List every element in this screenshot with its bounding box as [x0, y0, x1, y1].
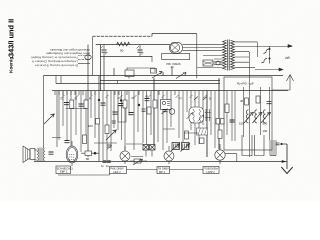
wire AVC connector [94, 142, 117, 144]
switch plate box [162, 54, 190, 60]
capacitor C17 small [106, 161, 111, 168]
switch S1 mains selector [262, 46, 271, 64]
svg-text:PHIL DKBV: PHIL DKBV [110, 167, 124, 171]
wire cathode rail [34, 161, 287, 163]
wire drop to mains section [151, 56, 153, 62]
coil L6 with trimmer [244, 110, 254, 123]
svg-text:EBF 2: EBF 2 [60, 170, 68, 174]
svg-text:uW: uW [285, 56, 290, 60]
svg-text:L/EF 2: L/EF 2 [113, 170, 121, 174]
switch S3 arrow [152, 72, 162, 79]
tube V3 [164, 146, 174, 164]
wire bus B left drop [43, 76, 45, 149]
wire label link [127, 169, 204, 171]
trimmer arrow left [44, 114, 54, 124]
capacitor C14 [145, 99, 150, 101]
capacitor C13 [129, 113, 134, 115]
coil hatched bottom [270, 140, 276, 156]
box detector unit [161, 100, 172, 110]
RF section vertical wires mid group [103, 91, 114, 160]
rectifier tube U1 [170, 42, 183, 53]
wire anode top link [152, 34, 197, 37]
capacitor block right of stadium [205, 109, 211, 121]
capacitor C1 electrolytic [101, 45, 108, 57]
RF section vertical wires mid2 group [163, 91, 191, 150]
svg-text:100: 100 [263, 129, 268, 133]
wire mains terminal arrow [288, 45, 292, 48]
component value labels [61, 96, 213, 101]
RF section vertical wires IF1 group [118, 78, 158, 151]
capacitor C7 [113, 112, 118, 114]
resistor R18 box [221, 119, 225, 125]
wire component bottoms connector [52, 109, 87, 138]
svg-text:Drahtverbindung Schalter: Drahtverbindung Schalter [35, 64, 78, 68]
wire link top [141, 68, 155, 72]
coil dot L9 [169, 109, 175, 115]
resistor R3 box [84, 100, 88, 109]
resistor R2 box [70, 100, 74, 109]
coil L5 hatched [197, 128, 208, 135]
wire primary tap stubs [214, 59, 223, 65]
switch S2 arrow [176, 72, 186, 79]
capacitor C5 [79, 104, 84, 106]
IF transformer T3 stadium [187, 107, 204, 123]
label box V3 [157, 167, 170, 175]
label primary kreis [167, 62, 181, 69]
resistor R15 box [200, 138, 205, 144]
resistor R17 box [216, 119, 220, 125]
RF section vertical wires left group [59, 42, 269, 160]
potentiometer P2 [130, 159, 147, 165]
svg-text:PRI. KREIS: PRI. KREIS [167, 62, 181, 66]
wire bus B2 horizontal [56, 83, 220, 85]
coil bottoms right unit [242, 135, 264, 156]
capacitor C2 electrolytic [137, 45, 144, 57]
svg-text:Trennschicht in Leitung Modell: Trennschicht in Leitung Modell [31, 56, 78, 60]
wire bus C horizontal [52, 90, 288, 92]
antenna arrow [272, 75, 294, 91]
fuse F1 [203, 60, 224, 66]
svg-text:/TUB DKBV/: /TUB DKBV/ [204, 167, 219, 171]
label box V1 [56, 166, 73, 174]
pilot lamp [85, 55, 91, 60]
wire rectifier to transformer taps [183, 44, 223, 67]
tube V4 [215, 144, 225, 164]
resistor R7 box [218, 130, 222, 139]
label box V2 [110, 167, 127, 175]
wire tap ticks [62, 95, 207, 98]
svg-text:343/I und II: 343/I und II [7, 19, 16, 57]
wire bus B3 horizontal [100, 80, 220, 82]
resistor R5 box [105, 125, 109, 134]
svg-text:80: 80 [86, 157, 90, 161]
svg-text:beim Vergleich der Schaltungen: beim Vergleich der Schaltungen [46, 52, 90, 56]
wire bus B horizontal [44, 75, 284, 77]
trimmer arrow mid [106, 130, 116, 140]
capacitor C18 small [276, 143, 283, 145]
svg-text:Leitungsverbindung Chassis II: Leitungsverbindung Chassis II [32, 60, 78, 64]
capacitor C6 with dot [98, 99, 105, 105]
wire mains vertical [196, 34, 198, 79]
capacitor C22 in unit [267, 102, 272, 104]
resistor R14 box [185, 131, 189, 139]
IF can box [118, 106, 126, 123]
wire vertical risers top [88, 45, 172, 162]
svg-text:500: 500 [263, 122, 268, 126]
wire comb ticks [55, 91, 211, 95]
label box V4 [203, 167, 219, 175]
wire V4 anode connector [225, 154, 237, 162]
svg-text:L/MP 2: L/MP 2 [207, 170, 216, 174]
capacitor C8 [230, 120, 235, 122]
svg-text:40: 40 [240, 99, 244, 103]
svg-text:50: 50 [120, 49, 124, 53]
legend line style samples [78, 56, 90, 64]
svg-text:TB DKBV: TB DKBV [158, 167, 169, 171]
wire bus B3 riser [117, 81, 119, 84]
wire main bus verticals [154, 78, 219, 157]
wire connector det [163, 129, 198, 133]
wire top AVC rail [93, 35, 153, 37]
resistor R19 box [151, 69, 157, 74]
svg-text:150: 150 [239, 122, 244, 126]
resistor R13 box [153, 100, 157, 108]
RF section vertical wires right group [227, 42, 269, 157]
wire lower terminal [255, 68, 283, 71]
svg-text:ECH4/ECH21: ECH4/ECH21 [57, 166, 74, 170]
resistor R8 box in unit [245, 98, 249, 105]
tone control cluster [126, 144, 155, 157]
resistor R6 box [225, 104, 229, 113]
title text Koenig 343/I und II [7, 19, 16, 73]
junction dot [138, 104, 140, 106]
coil L7 with trimmer [253, 110, 263, 123]
wire heater supply rail [96, 44, 170, 46]
capacitor C16 small [101, 161, 107, 168]
svg-text:MP 2: MP 2 [159, 170, 166, 174]
capacitor C19 with arrow [107, 145, 113, 150]
tube V1 output [66, 141, 78, 166]
tube V2 [120, 146, 130, 164]
capacitor C20 [112, 121, 116, 123]
AVC tap arrows [194, 97, 207, 101]
oscillator coil unit [171, 143, 190, 152]
legend note text block [31, 48, 90, 68]
ground arrow [281, 144, 292, 174]
capacitor C15 with arrow [162, 109, 168, 115]
resistor R11 box [83, 135, 87, 144]
capacitor C3 mains [125, 68, 141, 79]
svg-text:100: 100 [88, 124, 93, 128]
capacitor C4 [64, 103, 69, 105]
speaker LS [23, 146, 35, 163]
coil L8 with trimmer [261, 110, 271, 123]
resistor R9 box in unit [256, 96, 260, 103]
svg-text:Ry+RD ~ µF: Ry+RD ~ µF [237, 82, 254, 86]
box oscillator unit Ry+RD [224, 77, 272, 150]
RF section vertical wires IF2 group [195, 78, 219, 157]
wire secondary taps [234, 42, 292, 68]
resistor R16 box [96, 119, 100, 125]
resistor R10 [81, 151, 99, 161]
capacitor C12 with dot [119, 100, 124, 106]
transformer T1 power [223, 40, 235, 71]
wire cap bottom rail [100, 56, 152, 58]
wire top rail drop [92, 37, 94, 76]
capacitor C11 [65, 141, 70, 143]
resistor R1 zigzag [117, 42, 130, 46]
resistor R12 box [123, 100, 127, 108]
wire heater rail [58, 174, 110, 176]
transformer T4 output [34, 148, 45, 162]
svg-text:Koenig: Koenig [9, 57, 15, 73]
svg-text:Abweichungen der Bauteile: Abweichungen der Bauteile [50, 48, 90, 52]
wire bus C left drop [56, 91, 58, 147]
wire bus B2 riser [56, 76, 61, 84]
capacitor C10 [49, 152, 54, 154]
capacitor C21 cluster [142, 107, 152, 114]
